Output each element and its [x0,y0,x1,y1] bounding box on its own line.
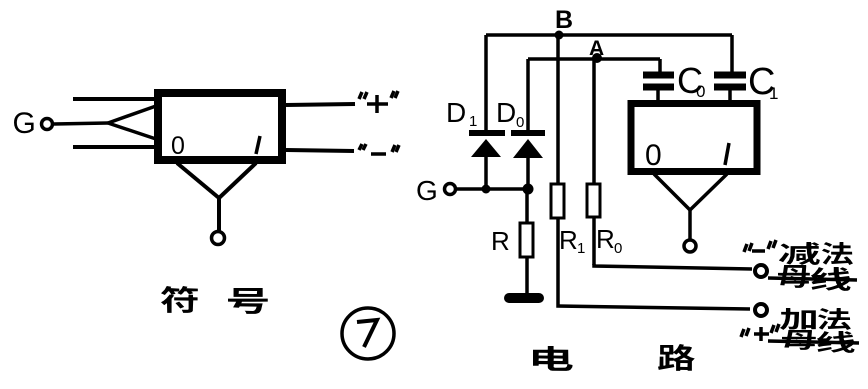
strikethrough line through top 母线 [768,278,857,280]
terminal circle at G input (circuit) [445,184,456,195]
terminal circle plus bus [755,304,767,316]
wire second line from D0 to C0 [528,57,660,61]
label "+" (symbol output) [359,91,398,113]
resistor R0 [587,59,600,265]
wire fork lower branch into box [108,123,156,139]
svg-text:1: 1 [577,240,585,257]
label fu (符) [161,286,198,313]
wire "-" output (symbol) [286,150,354,151]
triangle left leg under symbol box [177,163,219,198]
svg-text:D: D [446,97,466,128]
wire R1 to plus bus terminal [558,305,750,309]
svg-text:1: 1 [769,84,778,103]
svg-text:1: 1 [469,113,477,130]
label mu (母) top [778,265,810,288]
label xian (线) bottom [817,331,855,353]
terminal circle under triangle (circuit) [684,240,696,252]
svg-text:R: R [559,225,578,255]
terminal circle below triangle (symbol) [212,232,225,245]
triangle right leg under symbol box [219,163,256,198]
svg-text:0: 0 [516,114,524,131]
figure number circle 7 [342,308,394,359]
wire from G terminal to fork point [54,123,108,124]
svg-text:R: R [596,224,615,254]
svg-text:0: 0 [645,139,662,172]
strikethrough line through bottom 母线 [768,341,859,343]
svg-text:0: 0 [171,132,185,160]
svg-text:0: 0 [614,240,622,257]
wire fork upper branch into box [108,106,156,123]
label fa (法) top [822,242,853,265]
wire bottom-left stub into box [73,145,156,149]
diode D0 [511,59,545,189]
flip-flop box (circuit) [631,104,757,172]
wire drop to C0 [658,59,662,72]
wire from G terminal to diodes [456,187,530,191]
wire from triangle apex down [217,198,221,231]
node B dot [555,31,564,40]
label "+" at plus bus [741,324,779,341]
triangle under circuit box [654,174,727,210]
label hao (号) [228,288,268,314]
wire top bus line from D1 to C1 [486,33,732,37]
label "-" (symbol output) [359,144,399,154]
terminal circle at G input (left symbol) [42,119,53,130]
capacitor C0 [643,75,674,103]
svg-text:G: G [13,107,36,140]
label dian (电) [533,346,573,371]
label xian (线) top [811,267,851,291]
label mu (母) bottom [782,330,816,350]
terminal circle minus bus [755,265,767,277]
label fa (法) bottom [818,308,851,330]
label jian (减) [779,242,820,265]
svg-text:R: R [491,226,510,256]
node junction dot at D0 / R [523,184,534,195]
svg-text:0: 0 [696,82,705,101]
ground symbol [509,293,539,303]
svg-text:G: G [416,175,438,206]
label 1 inside circuit box [725,143,729,165]
resistor R [520,189,533,293]
svg-text:A: A [589,37,604,60]
capacitor C1 [714,75,746,103]
node junction dot at D1 [482,185,491,194]
wire right drop to C1 [730,35,734,72]
label jia (加) [780,308,816,330]
wire R0 to minus bus terminal [594,264,752,269]
label lu (路) [658,344,695,371]
flip-flop box (symbol) [158,93,282,160]
resistor R1 [551,35,564,305]
label "-" at minus bus [744,240,776,252]
svg-text:D: D [496,97,516,128]
wire triangle apex down (circuit) [688,210,692,240]
wire "+" output (symbol) [286,104,355,105]
svg-text:B: B [555,6,573,34]
wire top-left stub into box [73,97,156,101]
label 1 inside symbol box [256,136,260,154]
node A dot [592,53,602,63]
diode D1 [469,35,505,189]
